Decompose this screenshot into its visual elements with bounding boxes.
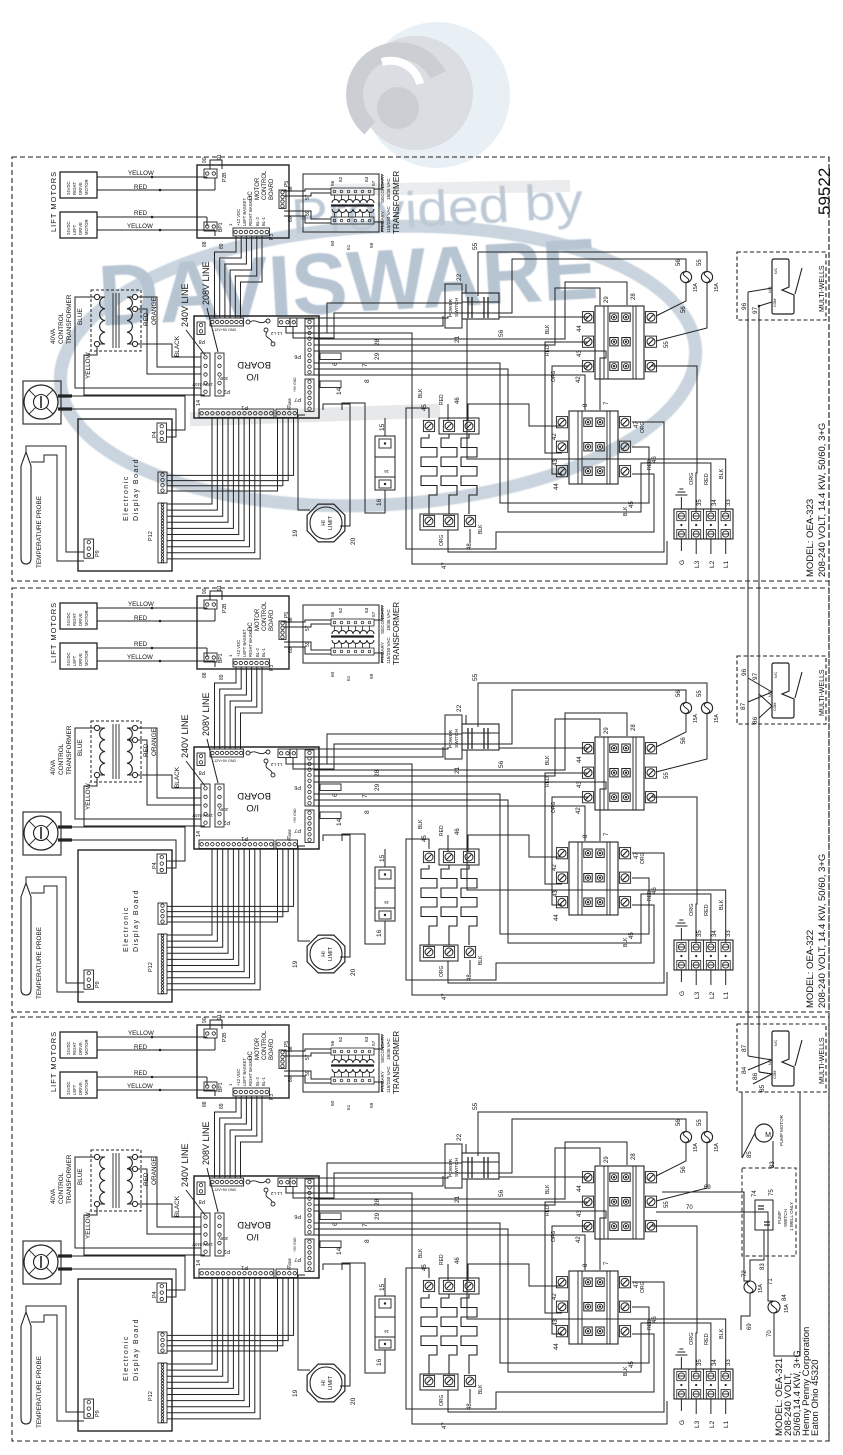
wire 96 through <box>747 656 749 724</box>
svg-text:N/C: N/C <box>774 671 778 678</box>
svg-text:96: 96 <box>741 668 748 676</box>
svg-text:Eaton Ohio 45320: Eaton Ohio 45320 <box>810 1359 821 1436</box>
svg-text:COM: COM <box>773 1071 777 1079</box>
cross wire c <box>759 694 772 706</box>
svg-text:N/O: N/O <box>768 286 772 293</box>
wire 96 <box>748 288 772 292</box>
cross wire d3 <box>753 1072 772 1084</box>
wire 84 in <box>758 1024 760 1072</box>
svg-text:15A: 15A <box>784 1303 790 1313</box>
svg-text:84: 84 <box>741 1066 748 1074</box>
wire 97 interband a <box>758 320 760 656</box>
cross wire c3 <box>759 1072 772 1074</box>
pump wire sw <box>750 1230 764 1281</box>
svg-text:70: 70 <box>767 1330 773 1337</box>
svg-text:87: 87 <box>741 1044 748 1052</box>
svg-text:96: 96 <box>741 302 748 310</box>
svg-text:59522: 59522 <box>815 168 834 215</box>
wire 97 <box>759 302 772 306</box>
multi-wells enclosure <box>737 656 826 724</box>
wire 97 interband b <box>758 724 760 1024</box>
pump wire 70 <box>656 1212 774 1301</box>
multi-wells switch <box>772 259 794 314</box>
pump wire f4 down <box>773 1313 775 1330</box>
svg-text:72: 72 <box>742 1270 748 1277</box>
pump wire f3 down <box>741 1293 750 1330</box>
circuit section model OEA-321 <box>12 1014 829 1441</box>
multi-wells switch <box>772 663 794 718</box>
svg-text:MULTI-WELLS: MULTI-WELLS <box>819 669 826 716</box>
svg-text:1 WELL ONLY: 1 WELL ONLY <box>789 1202 794 1231</box>
svg-text:69: 69 <box>747 1323 753 1330</box>
fuse F3 <box>744 1281 756 1293</box>
multi-wells enclosure <box>737 1024 826 1092</box>
svg-text:71: 71 <box>768 1278 774 1285</box>
watermark Provided by DAVISWARE <box>53 22 703 521</box>
svg-text:SWITCH: SWITCH <box>783 1209 788 1227</box>
svg-text:84: 84 <box>782 1294 788 1301</box>
svg-text:85: 85 <box>747 1151 753 1158</box>
cross wire d <box>759 706 772 718</box>
svg-text:N/C: N/C <box>774 267 778 274</box>
pump switch enclosure <box>742 1168 796 1256</box>
right dashed border <box>828 157 830 1441</box>
circuit section model OEA-323 <box>12 154 829 581</box>
svg-text:87: 87 <box>740 702 747 710</box>
svg-text:208-240 VOLT, 14.4 KW, 50/60,: 208-240 VOLT, 14.4 KW, 50/60, 3+G <box>817 423 828 577</box>
wire 87 in <box>747 1024 749 1056</box>
svg-text:15A: 15A <box>758 1283 764 1293</box>
svg-text:85: 85 <box>759 1084 766 1092</box>
svg-text:COM: COM <box>773 703 777 711</box>
svg-text:74: 74 <box>752 1190 758 1197</box>
svg-text:83: 83 <box>760 1263 766 1270</box>
wire 97 through <box>758 656 760 724</box>
svg-text:MULTI-WELLS: MULTI-WELLS <box>819 1037 826 1084</box>
svg-text:COM: COM <box>773 299 777 307</box>
fuse F4 <box>768 1301 780 1313</box>
pump motor M3 <box>755 1124 773 1142</box>
pump wires <box>742 1092 755 1158</box>
pump switch S4 <box>755 1200 773 1230</box>
pump wire nc <box>774 1092 800 1356</box>
svg-text:MODEL: OEA-323: MODEL: OEA-323 <box>805 499 816 577</box>
svg-text:MODEL: OEA-322: MODEL: OEA-322 <box>805 930 816 1008</box>
cross wire b3 <box>748 1060 772 1070</box>
circuit section model OEA-322 <box>12 585 829 1012</box>
svg-text:75: 75 <box>769 1189 775 1196</box>
svg-text:N/C: N/C <box>774 1039 778 1046</box>
svg-text:208-240 VOLT, 14.4 KW, 50/60,: 208-240 VOLT, 14.4 KW, 50/60, 3+G <box>817 854 828 1008</box>
svg-text:86: 86 <box>752 716 759 724</box>
multi-wells switch <box>772 1031 794 1086</box>
svg-text:M: M <box>765 1132 771 1139</box>
cross wire a3 <box>748 1056 772 1060</box>
pump wire 69 <box>662 1192 750 1281</box>
svg-text:PUMP MOTOR: PUMP MOTOR <box>779 1114 784 1146</box>
svg-text:97: 97 <box>752 306 759 314</box>
wire 96 interband b <box>747 724 749 1024</box>
multi-wells enclosure <box>737 252 826 320</box>
wire 96 interband a <box>747 320 749 656</box>
cross wire a <box>748 678 772 692</box>
svg-text:86: 86 <box>752 1072 759 1080</box>
svg-text:PUMP: PUMP <box>777 1211 782 1224</box>
svg-text:97: 97 <box>752 672 759 680</box>
svg-text:70: 70 <box>686 1205 693 1211</box>
svg-text:MULTI-WELLS: MULTI-WELLS <box>819 265 826 312</box>
cross wire b <box>748 692 772 702</box>
svg-text:69: 69 <box>704 1185 711 1191</box>
